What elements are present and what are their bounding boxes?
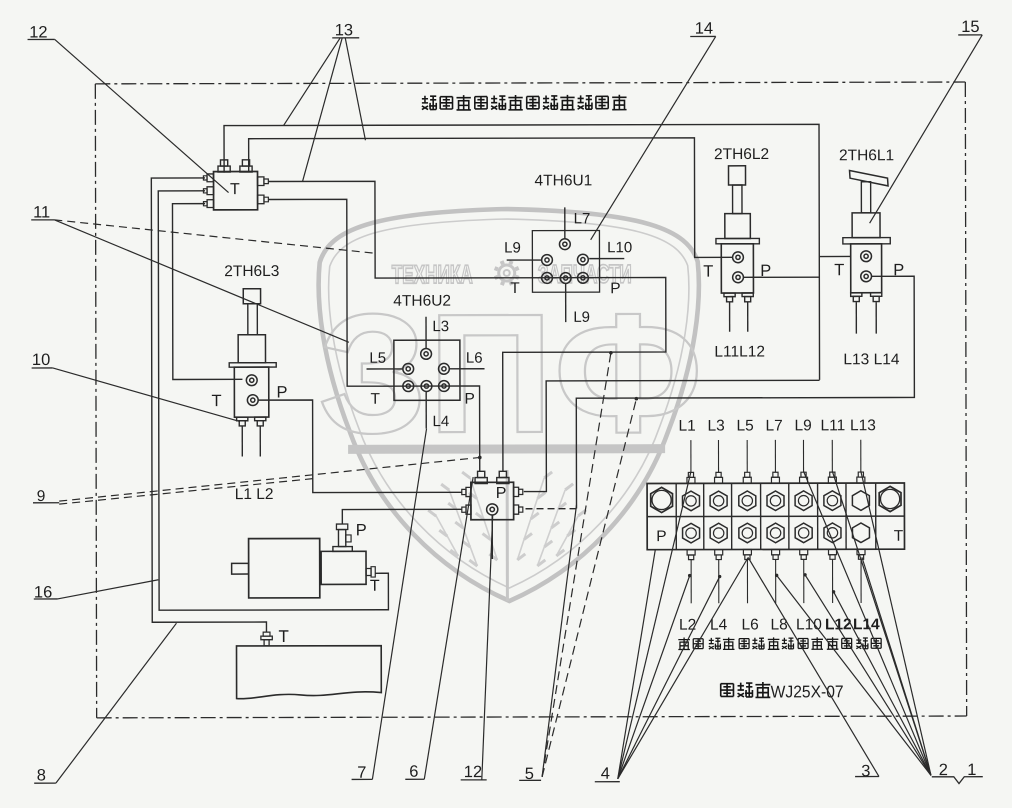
wire: manifold right fitting 2 to 4TH6U2 T row and down to P-block top fitting 1: [268, 199, 479, 472]
block top hose 2: [746, 440, 748, 472]
svg-text:P: P: [610, 280, 620, 297]
block bottom hose 1: [718, 560, 720, 604]
L5 stub: [367, 368, 403, 370]
2TH6L3 handle knob: [243, 289, 260, 304]
L6 stub: [449, 368, 484, 370]
wire: 2TH6L1 P loop down to P-block right fitting 2 (dashed tail): [576, 276, 915, 508]
svg-text:13: 13: [335, 21, 353, 39]
P distribution block: [471, 482, 514, 519]
4TH6U2 port L6: [439, 363, 450, 374]
svg-text:T: T: [278, 627, 288, 646]
2TH6L1 handle stem: [861, 182, 870, 213]
manifold left fitting 3: [207, 200, 214, 208]
block top hose 0: [690, 440, 692, 472]
2TH6L3 T port: [246, 375, 257, 386]
pump P outlet valve: [336, 524, 347, 530]
P-block left fitting 1: [466, 487, 471, 496]
svg-text:T: T: [370, 391, 380, 408]
4TH6U1 port L9: [542, 255, 553, 266]
svg-text:L1 L2: L1 L2: [235, 486, 274, 503]
block bottom fitting 2: [743, 549, 751, 559]
P-block right fitting 1: [514, 487, 519, 496]
2TH6L2 bottom fitting L12: [742, 293, 753, 302]
svg-text:T: T: [230, 181, 240, 198]
P-block gauge port: [487, 504, 498, 515]
svg-text:L5: L5: [737, 417, 754, 434]
wire: P-block gauge port stub down: [491, 515, 493, 559]
2TH6L3 bottom fitting L1: [237, 417, 248, 426]
block top fitting 2: [743, 472, 751, 483]
svg-text:6: 6: [409, 763, 418, 781]
wire: 2TH6L1 T stub from x819 vertical: [819, 255, 851, 257]
4TH6U1 port P: [578, 272, 589, 283]
title: pilot hydraulic system oil circuit connection diagram: [422, 96, 436, 110]
P-block right fitting 2: [514, 505, 519, 514]
block top hose 6: [860, 440, 862, 472]
wire: manifold right fitting 1 down and across through 4TH6U1 T/P row to centre P-block top fitting 2: [268, 181, 666, 472]
P-block top fitting 2: [497, 471, 509, 483]
4TH6U1 port L7: [559, 239, 570, 250]
L4 line: [425, 392, 427, 429]
2TH6L2 T port: [733, 252, 744, 263]
svg-text:P: P: [464, 391, 474, 408]
2TH6L3 flange: [229, 363, 276, 367]
2TH6L2 bottom fitting L11: [724, 293, 735, 302]
L9 stub: [507, 259, 541, 261]
2TH6L2 upper body: [725, 214, 751, 239]
function captions row: [678, 638, 690, 650]
2TH6L2 lower body: [721, 244, 753, 293]
svg-text:L13: L13: [850, 417, 876, 434]
block end cap P side: [651, 487, 673, 512]
block top fitting 1: [715, 472, 723, 483]
block bottom fitting 0: [687, 550, 695, 560]
motor shaft stub: [232, 563, 249, 574]
block section hex bolts col L5/L6: [739, 491, 756, 511]
svg-text:P: P: [356, 521, 367, 539]
manifold right fitting 2: [258, 195, 264, 204]
svg-text:L9: L9: [504, 239, 521, 256]
wire: manifold top fitting 2 to 2TH6L2 T port: [249, 138, 733, 259]
svg-text:P: P: [656, 528, 666, 545]
wire: manifold left fitting 1 loop down left side to tank: [151, 178, 266, 632]
svg-text:T: T: [834, 261, 844, 279]
4TH6U2 port L4: [421, 381, 432, 392]
hose L13: [855, 302, 857, 333]
svg-text:T: T: [894, 528, 904, 545]
2TH6L1 bottom fitting L14: [871, 293, 882, 302]
svg-text:L13 L14: L13 L14: [843, 351, 899, 368]
L7 line: [564, 207, 566, 238]
block bottom fitting 1: [715, 550, 723, 560]
svg-text:L3: L3: [432, 318, 449, 335]
4TH6U2 port P: [439, 381, 450, 392]
svg-text:P: P: [496, 485, 507, 502]
block top fitting 6: [857, 472, 865, 483]
2TH6L3 upper body: [238, 335, 265, 363]
svg-text:L9: L9: [795, 417, 812, 434]
svg-text:12: 12: [29, 23, 47, 41]
wire: pump P outlet to P-block left fitting 2: [342, 509, 462, 524]
L3 line: [425, 317, 427, 348]
2TH6L1 flange: [843, 238, 890, 244]
svg-text:15: 15: [961, 18, 979, 36]
4TH6U2 port T: [403, 381, 414, 392]
block top hose 4: [802, 440, 804, 472]
block bottom fitting 6: [857, 549, 865, 559]
4TH6U1 port T: [542, 273, 553, 284]
electric motor: [249, 538, 320, 597]
svg-text:L6: L6: [466, 350, 483, 367]
P-block top fitting 1: [475, 471, 487, 483]
svg-text:12: 12: [464, 763, 482, 781]
block bottom hose 5: [832, 559, 834, 603]
2TH6L1 tilted pedal handle: [850, 170, 889, 186]
block top hose 1: [717, 440, 719, 472]
block section hex bolts col L13/L14: [852, 491, 869, 511]
block end cap T side: [879, 486, 901, 511]
block bottom hose 4: [803, 559, 805, 603]
block top hose 5: [831, 440, 833, 472]
tank breather/T fitting: [263, 632, 270, 636]
svg-text:L7: L7: [766, 417, 783, 434]
svg-text:L14: L14: [853, 616, 880, 633]
block section hex bolts col L1/L2: [682, 491, 699, 511]
4TH6U1 port L8: [560, 273, 571, 284]
wire: manifold top fitting 1 to right-side vertical feeding 2TH6L1 T / 2TH6L2 P / line A: [224, 124, 820, 381]
2TH6L1 lower body: [851, 244, 882, 293]
svg-text:L4: L4: [710, 617, 728, 634]
wire: manifold left fitting 2 loop down to pump T return line: [158, 190, 388, 610]
svg-text:8: 8: [37, 766, 46, 784]
block section hex bolts col L3/L4: [710, 491, 727, 511]
2TH6L2 flange: [716, 238, 759, 243]
hose L14: [875, 302, 877, 333]
svg-text:4TH6U1: 4TH6U1: [535, 172, 593, 189]
manifold top fitting 2: [240, 160, 252, 172]
wire: 2TH6L2 P stub to vertical: [743, 276, 819, 278]
hose L1: [241, 426, 243, 456]
4TH6U1 body box: [532, 231, 599, 293]
2TH6L3 lower body: [234, 367, 269, 417]
multi-way valve block WJ25X-07: [647, 483, 904, 550]
block bottom fitting 3: [772, 549, 780, 559]
block bottom hose 2: [746, 559, 748, 603]
hose L12: [747, 302, 749, 331]
4TH6U2 body box: [394, 340, 460, 400]
4TH6U2 port L3: [421, 348, 432, 359]
svg-text:P: P: [276, 383, 287, 401]
gear pump: [321, 551, 366, 584]
4TH6U2 port L5: [403, 363, 414, 374]
2TH6L2 handle stem: [733, 185, 742, 214]
block bottom hose 0: [690, 560, 692, 604]
svg-text:4TH6U2: 4TH6U2: [393, 293, 451, 310]
block bottom hose 3: [775, 559, 777, 603]
2TH6L2 handle knob: [729, 166, 746, 185]
wire: line A - P-block right fitting 1 up and across to x819 vertical: [524, 380, 820, 491]
2TH6L3 P port: [247, 395, 258, 406]
svg-text:L11: L11: [821, 417, 846, 434]
svg-text:11: 11: [33, 203, 50, 221]
block top fitting 5: [828, 472, 836, 483]
svg-text:L1: L1: [679, 418, 696, 435]
caption multi-way valve WJ25X-07: [721, 684, 734, 697]
manifold left fitting 1: [207, 174, 214, 182]
P-block left fitting 2: [466, 505, 471, 514]
hydraulic tank: [237, 646, 382, 699]
svg-text:P: P: [760, 262, 771, 280]
svg-text:L3: L3: [708, 418, 725, 435]
svg-text:2TH6L2: 2TH6L2: [714, 146, 769, 163]
svg-text:L11L12: L11L12: [714, 343, 765, 360]
4TH6U1 port L10: [577, 254, 588, 265]
2TH6L1 T port: [861, 251, 872, 262]
dash-dot drawing border frame: [95, 82, 965, 84]
block bottom hose 6: [860, 559, 862, 603]
pump T outlet fitting: [366, 568, 371, 575]
svg-text:L10: L10: [796, 616, 822, 633]
2TH6L3 handle stem: [248, 304, 258, 335]
block top fitting 4: [800, 472, 808, 483]
manifold top fitting 1: [218, 160, 230, 172]
block top fitting 0: [687, 472, 695, 483]
svg-text:T: T: [703, 263, 713, 281]
block top fitting 3: [771, 472, 779, 483]
svg-text:L10: L10: [607, 239, 632, 256]
svg-text:L6: L6: [741, 616, 758, 633]
L10 stub: [589, 258, 624, 260]
svg-text:2TH6L3: 2TH6L3: [224, 263, 279, 280]
watermark shield logo: [318, 209, 704, 602]
svg-text:P: P: [893, 261, 904, 279]
svg-text:2TH6L1: 2TH6L1: [839, 147, 894, 164]
svg-text:L5: L5: [369, 350, 386, 367]
svg-text:T: T: [211, 392, 221, 410]
hose junction dots: [688, 574, 691, 577]
wire: 2TH6L3 P port to P-block left fitting 1: [258, 400, 461, 493]
svg-text:10: 10: [32, 351, 50, 369]
block top hose 3: [774, 440, 776, 472]
2TH6L2 P port: [733, 272, 744, 283]
block section hex bolts col L11/L12: [824, 491, 841, 511]
svg-text:L7: L7: [574, 210, 591, 227]
svg-text:L4: L4: [433, 413, 450, 430]
manifold block T (top-left distribution block): [214, 172, 258, 210]
svg-text:14: 14: [695, 20, 713, 38]
2TH6L1 P port: [861, 271, 872, 282]
svg-text:4: 4: [601, 765, 610, 783]
block section hex bolts col L9/L10: [795, 491, 812, 511]
svg-text:T: T: [510, 280, 520, 297]
2TH6L3 bottom fitting L2: [255, 417, 266, 426]
2TH6L1 bottom fitting L13: [851, 293, 862, 302]
svg-text:L2: L2: [679, 617, 696, 634]
block bottom fitting 4: [800, 549, 808, 559]
block section hex bolts col L7/L8: [767, 491, 784, 511]
2TH6L1 upper body: [852, 213, 880, 238]
svg-text:3: 3: [861, 762, 870, 780]
hose L2: [259, 426, 261, 456]
wire: manifold left fitting 3 down to 2TH6L3 T port: [172, 204, 242, 380]
svg-text:L9: L9: [573, 309, 590, 326]
manifold left fitting 2: [207, 187, 214, 195]
L8 line down: [565, 284, 567, 322]
svg-text:T: T: [370, 578, 380, 595]
block bottom fitting 5: [829, 549, 837, 559]
hose L11: [729, 302, 731, 331]
svg-text:ЗПФ: ЗПФ: [318, 279, 703, 470]
manifold right fitting 1: [258, 177, 264, 186]
